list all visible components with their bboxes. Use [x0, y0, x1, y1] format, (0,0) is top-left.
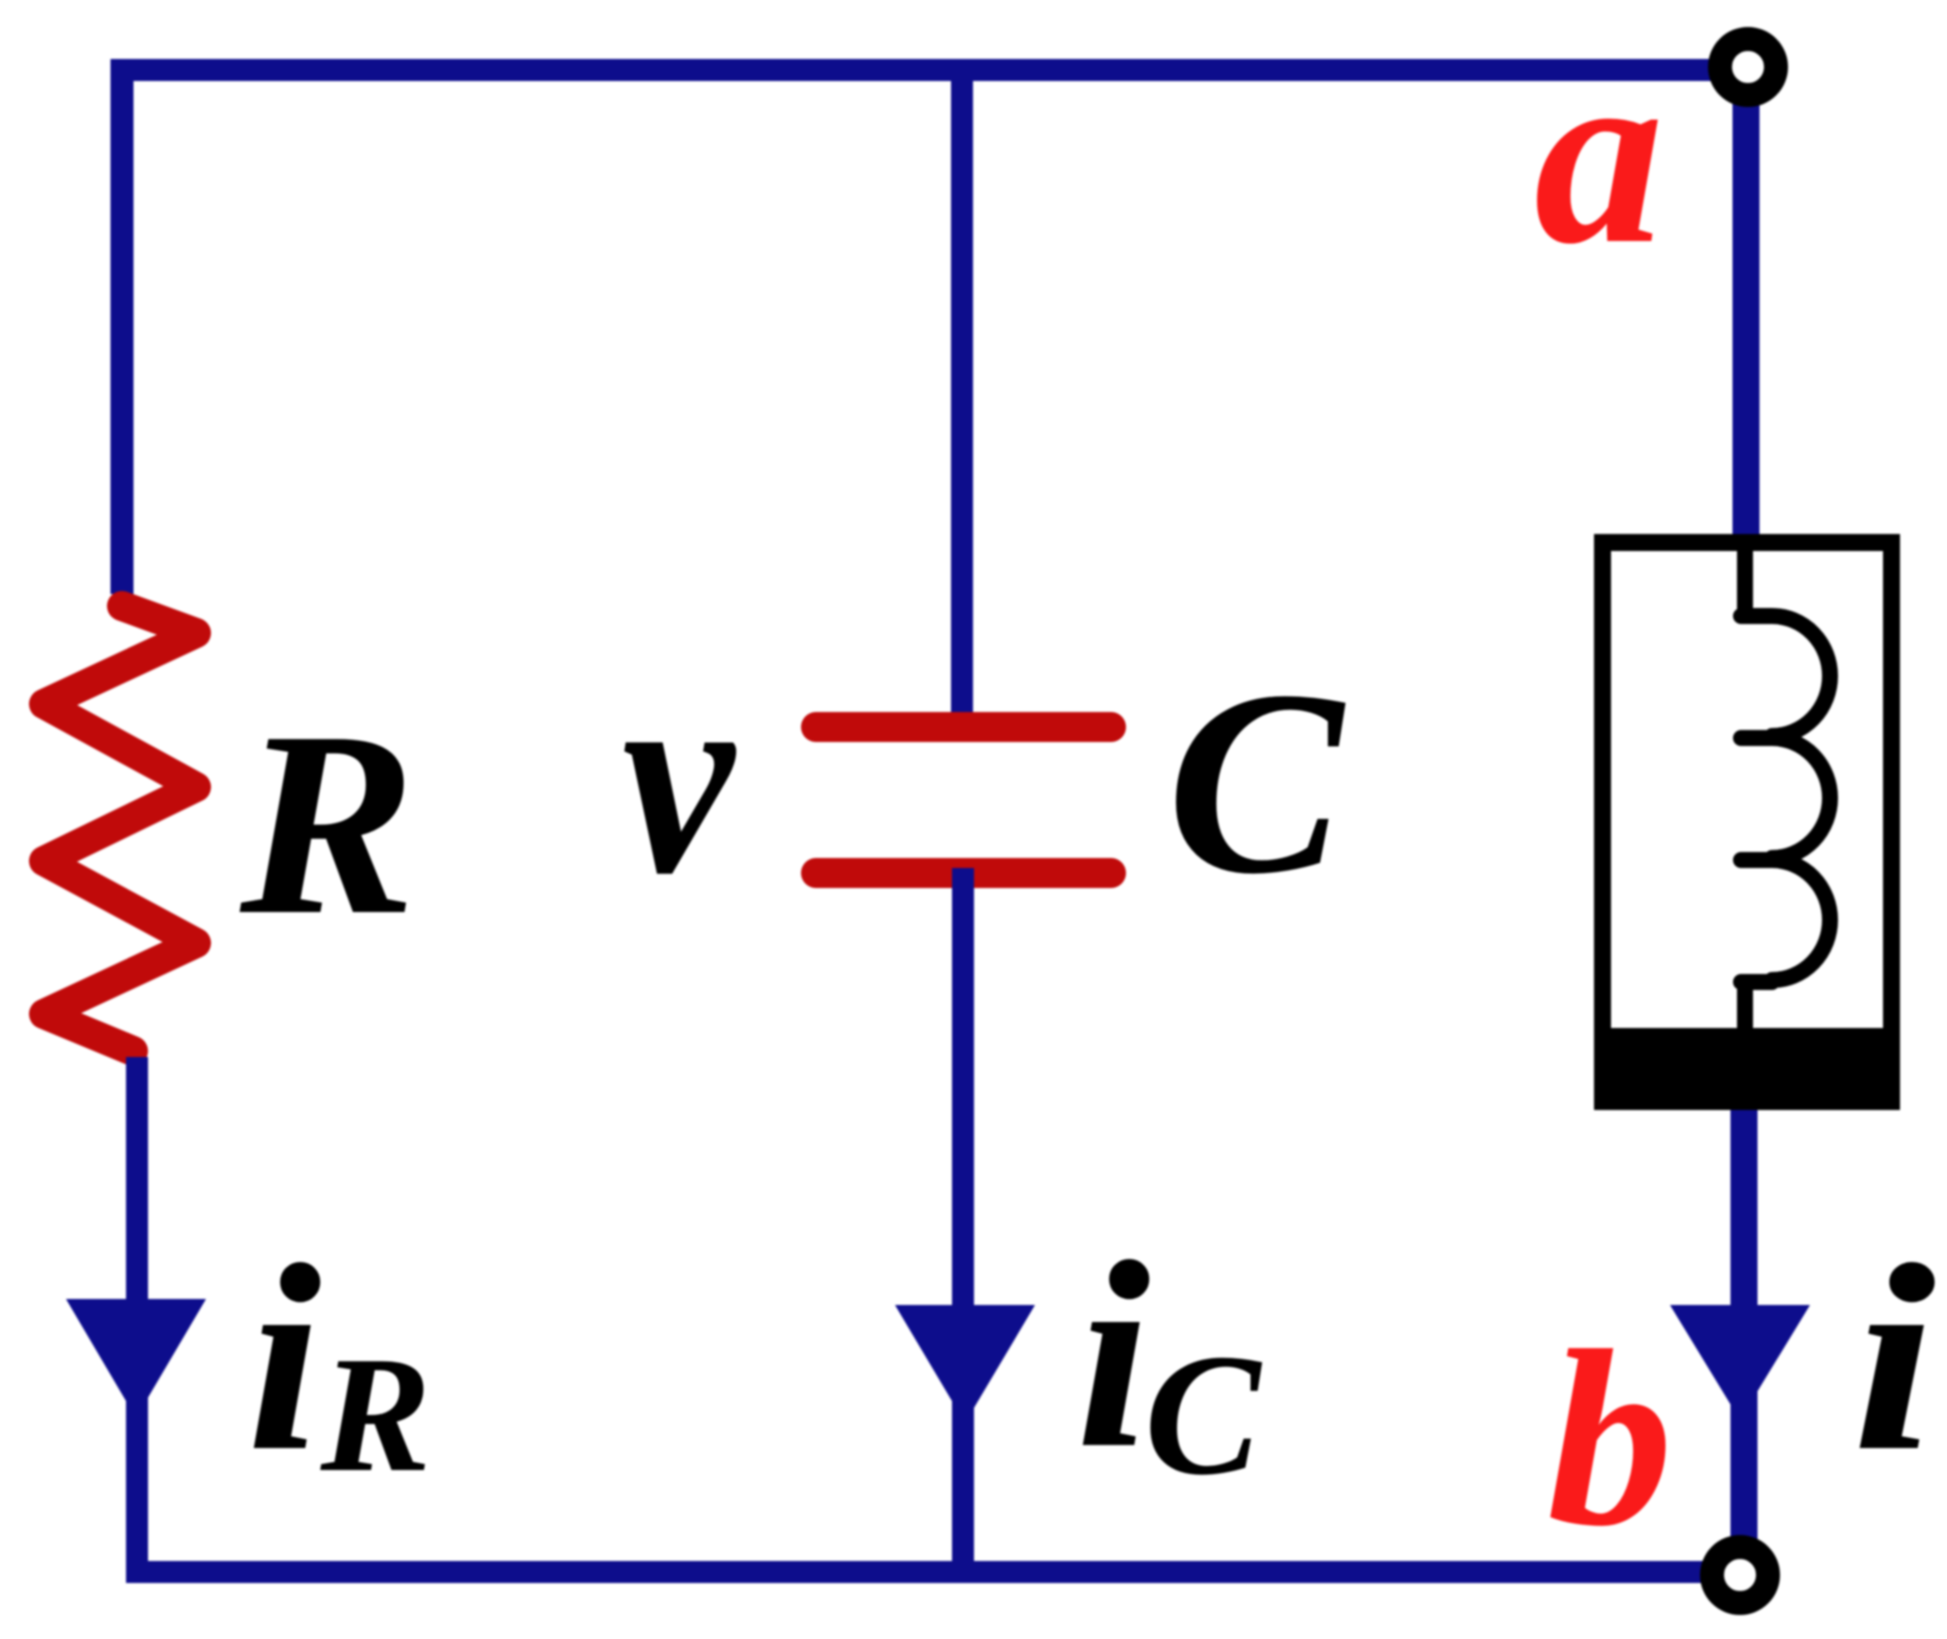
- svg-text:R: R: [236, 678, 416, 970]
- wire middle vertical lower: [952, 868, 974, 1572]
- svg-text:a: a: [1534, 10, 1664, 298]
- terminal b (node b): [1712, 1547, 1768, 1603]
- wire right vertical lower: [1731, 1105, 1758, 1575]
- inductor coil inside box: [1741, 549, 1830, 1032]
- wire right vertical upper: [1733, 67, 1760, 545]
- wire top horizontal: [111, 59, 1748, 81]
- svg-text:i: i: [1852, 1209, 1937, 1506]
- arrow iC: [895, 1305, 1035, 1423]
- svg-text:iC: iC: [1076, 1206, 1262, 1511]
- resistor R: [44, 606, 196, 1051]
- svg-text:v: v: [622, 621, 736, 932]
- wire middle vertical upper: [951, 59, 973, 717]
- load box bottom black bar: [1594, 1028, 1900, 1110]
- capacitor C top plate: [816, 712, 1111, 742]
- svg-text:iR: iR: [247, 1209, 431, 1506]
- arrow i: [1670, 1305, 1810, 1420]
- svg-text:b: b: [1547, 1298, 1673, 1578]
- terminal a (node a): [1720, 39, 1776, 95]
- wire bottom horizontal: [126, 1561, 1740, 1583]
- capacitor C bottom plate: [816, 858, 1111, 888]
- wire left vertical lower: [126, 1057, 148, 1572]
- arrow iR: [66, 1299, 206, 1418]
- load box outline: [1603, 543, 1892, 1102]
- wire left vertical upper: [111, 59, 134, 594]
- svg-text:C: C: [1167, 637, 1349, 929]
